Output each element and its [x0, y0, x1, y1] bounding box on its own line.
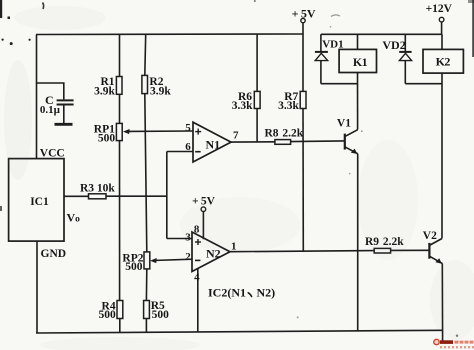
resistor R4 — [117, 301, 123, 319]
resistor R5 — [144, 301, 150, 319]
svg-text:4: 4 — [194, 271, 200, 283]
svg-text:3.3k: 3.3k — [278, 100, 299, 112]
svg-text:VD1: VD1 — [322, 39, 343, 51]
wire V2 emitter to bottom rail — [441, 263, 443, 341]
wire R8 to V1 base — [291, 140, 344, 143]
svg-text:V2: V2 — [423, 230, 437, 242]
resistor R9 — [374, 248, 390, 253]
capacitor end bar — [55, 123, 73, 126]
wire N2 output pin 1 — [230, 251, 374, 252]
wire R7 +5V column — [302, 34, 304, 91]
wire V1 emitter to bottom rail — [357, 154, 359, 331]
transistor V2 — [429, 239, 442, 264]
scan artifact left edge — [0, 0, 31, 211]
op-amp N2 — [192, 232, 230, 272]
wire left rail VCC column — [36, 35, 38, 159]
svg-text:7: 7 — [233, 129, 239, 141]
scan artifact faint curl — [331, 15, 340, 17]
wire RP2 to R5 — [145, 269, 147, 301]
svg-text:N1: N1 — [206, 137, 221, 151]
svg-text:R8 2.2k: R8 2.2k — [265, 128, 304, 140]
wire R2 to RP2 — [145, 94, 147, 252]
capacitor C — [57, 100, 74, 104]
svg-text:IC2(N1: IC2(N1 — [208, 286, 246, 300]
resistor R3 — [89, 194, 107, 199]
op-amp N1 — [193, 122, 231, 162]
svg-text:500: 500 — [98, 309, 116, 321]
potentiometer RP1 — [116, 123, 122, 140]
power terminal +5V above N2 pin 8 — [201, 207, 206, 212]
power terminal +5V — [301, 18, 305, 22]
power terminal +12V — [439, 17, 444, 22]
wire R6 to N1 output node — [256, 109, 258, 142]
resistor R8 — [275, 140, 291, 145]
wire N1 output pin 7 — [231, 141, 275, 143]
wire IC1 GND to bottom rail — [36, 241, 38, 333]
wire R5 to bottom rail — [145, 319, 147, 333]
wire R9 to V2 base — [391, 249, 429, 251]
wire VD1 K1 bottom bracket — [321, 83, 358, 85]
wire N2 pin 4 to bottom rail — [197, 269, 199, 332]
svg-text:IC1: IC1 — [30, 196, 49, 208]
wire R4 to bottom rail — [119, 319, 121, 333]
svg-text:K1: K1 — [353, 55, 368, 69]
label IC2(N1 N2) — [208, 286, 275, 300]
svg-text:+ 5V: + 5V — [292, 6, 316, 20]
resistor R6 — [254, 91, 260, 108]
svg-text:VD2: VD2 — [382, 38, 405, 52]
svg-text:500: 500 — [152, 309, 170, 321]
relay coil K1 box — [339, 49, 376, 72]
svg-text:500: 500 — [98, 132, 116, 144]
watermark red logo and text — [434, 339, 474, 348]
wire K2 to V2 collector — [441, 73, 443, 238]
relay coil K2 box — [423, 49, 463, 73]
wire R3 to mid node — [106, 195, 167, 197]
transistor V1 — [345, 130, 358, 154]
scan artifact top mark — [43, 3, 44, 10]
wire top rail left +5V net — [36, 33, 304, 36]
svg-text:5: 5 — [185, 122, 191, 134]
resistor R2 — [142, 75, 148, 93]
scan artifact small specks — [254, 0, 458, 337]
wire R7 to N2 output node — [302, 109, 304, 251]
wire capacitor C branch — [37, 83, 64, 99]
svg-text:R3 10k: R3 10k — [80, 183, 115, 195]
svg-text:500: 500 — [125, 261, 143, 273]
wire N1 pin 6 input — [167, 151, 193, 153]
diode VD2 — [399, 34, 411, 83]
svg-text:+12V: +12V — [426, 3, 453, 15]
svg-text:VCC: VCC — [40, 147, 65, 159]
svg-text:V1: V1 — [337, 118, 351, 130]
resistor R1 — [116, 77, 122, 95]
svg-text:GND: GND — [41, 248, 67, 260]
wire N2 pin 8 — [202, 212, 204, 240]
svg-text:2: 2 — [185, 251, 191, 263]
wire R1 column from top rail — [119, 34, 121, 76]
wire RP2 wiper arrow to N2 pin 2 — [150, 258, 192, 263]
svg-text:N2): N2) — [257, 286, 276, 300]
wire bottom rail ground — [36, 330, 443, 333]
svg-text:3.9k: 3.9k — [94, 86, 115, 98]
resistor R7 — [300, 91, 306, 108]
svg-text:K2: K2 — [436, 55, 451, 69]
wire RP1 wiper arrow to N1 pin 5 — [123, 129, 193, 134]
wire R1 to RP1 — [119, 94, 121, 123]
potentiometer RP2 — [144, 252, 150, 269]
diode VD1 — [315, 34, 328, 83]
svg-text:6: 6 — [185, 141, 191, 153]
scan artifact right edge — [468, 0, 474, 57]
wire +12V rail — [321, 33, 442, 35]
wire capacitor lower lead — [63, 106, 65, 124]
wire K1 top lead — [357, 34, 359, 49]
wire IC1 Vo output to R3 — [64, 195, 89, 197]
wire VD2 K2 bottom bracket — [405, 83, 442, 85]
svg-text:3.3k: 3.3k — [232, 100, 253, 112]
wire K1 to V1 collector — [357, 73, 359, 130]
svg-text:0.1µ: 0.1µ — [40, 104, 61, 116]
wire RP1 to R4 — [119, 141, 121, 301]
wire R6 column from top rail — [256, 34, 258, 91]
IC U1 IC1 box — [9, 159, 64, 242]
wire R2 column from top rail — [144, 34, 147, 75]
svg-text:3.9k: 3.9k — [150, 86, 171, 98]
wire N2 pin 3 input — [167, 238, 192, 240]
wire +5V terminal drop — [302, 23, 304, 35]
wire mid vertical node to N1 pin6 and N2 pin3 — [166, 152, 168, 239]
svg-text:Vo: Vo — [67, 211, 81, 225]
wire +12V terminal drop — [441, 22, 443, 34]
wire K2 top lead — [441, 34, 443, 49]
